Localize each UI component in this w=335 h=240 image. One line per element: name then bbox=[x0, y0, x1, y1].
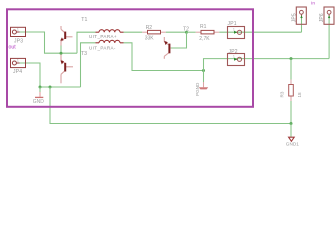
wire R1 to JP1 and JP5 bbox=[214, 31, 219, 33]
wire PGND stub bbox=[203, 71, 205, 83]
svg-text:18: 18 bbox=[297, 92, 302, 98]
transistor Q2 bbox=[61, 55, 73, 84]
wire JP6 drop bbox=[328, 15, 330, 59]
inductor winding 2 bbox=[96, 40, 124, 42]
svg-text:T3: T3 bbox=[81, 51, 87, 57]
connector JP5 bbox=[296, 7, 306, 24]
svg-text:PGND: PGND bbox=[195, 82, 200, 96]
ground PGND bbox=[199, 87, 208, 89]
ground GND bbox=[39, 87, 41, 92]
svg-text:R3: R3 bbox=[279, 91, 284, 97]
junction dot PGND node bbox=[202, 69, 205, 72]
junction dot gnd bbox=[39, 86, 42, 89]
wire JP5 drop bbox=[301, 15, 303, 32]
svg-text:T1: T1 bbox=[81, 17, 87, 23]
svg-text:T2: T2 bbox=[183, 26, 189, 32]
svg-text:JP2: JP2 bbox=[229, 49, 238, 55]
wire coil2 right to PGND node bbox=[124, 43, 204, 71]
transistor Q1 bbox=[61, 26, 73, 46]
svg-text:out: out bbox=[9, 44, 17, 50]
connector JP6 bbox=[324, 7, 334, 24]
junction dot R3 top bbox=[290, 57, 293, 60]
wire long bottom run bbox=[50, 87, 291, 124]
svg-text:UIT_PARA+: UIT_PARA+ bbox=[89, 34, 117, 39]
resistor R2 bbox=[148, 30, 161, 34]
resistor R1 bbox=[201, 30, 214, 34]
svg-text:JP4: JP4 bbox=[13, 69, 22, 75]
wire coil1 to R2 bbox=[124, 31, 143, 33]
wire JP3 to node line bbox=[19, 32, 77, 53]
svg-text:GND1: GND1 bbox=[286, 141, 299, 146]
wire R3 bottom bbox=[290, 96, 292, 101]
wire bottom line to coil2 bbox=[81, 43, 96, 87]
svg-text:1: 1 bbox=[233, 55, 235, 59]
svg-text:GND: GND bbox=[33, 99, 45, 105]
svg-text:R2: R2 bbox=[146, 25, 153, 31]
inductor winding 1 bbox=[96, 30, 124, 32]
svg-text:1: 1 bbox=[17, 59, 19, 63]
wire bottom node line bbox=[40, 86, 81, 88]
wire JP4 to gnd junction bbox=[19, 63, 40, 87]
svg-text:2,7K: 2,7K bbox=[199, 36, 210, 42]
wire T2 to Q3 base bbox=[171, 32, 187, 48]
resistor R3 bbox=[289, 85, 294, 97]
svg-text:R1: R1 bbox=[200, 24, 207, 30]
transistor Q3 bbox=[164, 37, 171, 59]
junction dot bottom right bbox=[290, 122, 293, 125]
svg-text:JP1: JP1 bbox=[228, 21, 237, 27]
svg-text:33K: 33K bbox=[145, 36, 155, 42]
wire to GND1 bbox=[290, 124, 292, 138]
node T2 dot bbox=[185, 31, 188, 34]
connector JP1 bbox=[228, 27, 245, 39]
svg-text:1: 1 bbox=[17, 28, 19, 32]
connector JP4 bbox=[11, 58, 26, 67]
svg-text:JP6: JP6 bbox=[319, 13, 325, 22]
svg-text:UIT_PARA-: UIT_PARA- bbox=[89, 45, 116, 50]
connector JP2 bbox=[228, 54, 245, 66]
svg-text:in: in bbox=[311, 1, 315, 6]
connector JP3 bbox=[11, 27, 26, 36]
wire R3 top bbox=[290, 59, 292, 80]
svg-text:1: 1 bbox=[233, 28, 235, 32]
node A dot bbox=[60, 52, 63, 55]
svg-text:JP5: JP5 bbox=[291, 13, 297, 22]
wire node line to coil1 bbox=[77, 32, 96, 53]
wire PGND node up to JP2 line bbox=[204, 59, 330, 71]
wire Q1 emitter to node bbox=[60, 45, 62, 53]
wire R2 to T2 node bbox=[161, 31, 166, 33]
junction dot bottom feed bbox=[49, 86, 52, 89]
wire T2 to R1 bbox=[187, 31, 196, 33]
ground GND1 bbox=[289, 137, 295, 141]
